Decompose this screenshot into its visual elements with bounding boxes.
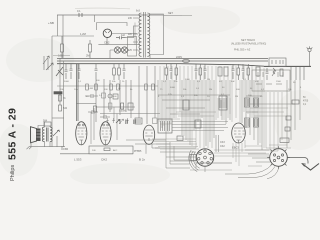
wire speaker top [38, 118, 64, 129]
transformer T1 core [144, 12, 146, 58]
svg-text:0,5M: 0,5M [58, 55, 64, 58]
socket X1 leads [190, 155, 232, 164]
horizontal connects center [126, 95, 295, 162]
fuse F1 [183, 60, 190, 63]
svg-text:0,5M: 0,5M [88, 88, 93, 90]
svg-text:0,1: 0,1 [77, 9, 81, 13]
svg-text:5M: 5M [235, 96, 238, 98]
note text block [231, 39, 266, 52]
svg-text:PHIL 555 + AZ: PHIL 555 + AZ [234, 49, 251, 52]
socket X1 labels [220, 141, 225, 148]
vertical wires mid left [60, 58, 155, 147]
wire mains lead [164, 15, 193, 17]
svg-text:L 553: L 553 [74, 158, 82, 162]
hum pot arrow [53, 130, 60, 136]
wire under speaker / ground [27, 136, 66, 149]
mesh verticals dense [160, 66, 282, 166]
svg-text:5000: 5000 [64, 81, 70, 83]
wire V3 bottom leads [146, 144, 160, 154]
detector parts row [116, 119, 135, 124]
svg-text:8uF: 8uF [231, 81, 235, 83]
IF transformer above V3 [135, 118, 142, 124]
wire lamps [110, 50, 129, 58]
mid components center [183, 96, 299, 131]
svg-text:4700: 4700 [303, 101, 309, 103]
svg-text:1500: 1500 [276, 81, 282, 83]
wire vertical from top rail to AVC line [58, 15, 95, 58]
wire tube to transformer [112, 26, 137, 37]
tuning indicator tube U1 [103, 29, 111, 37]
svg-text:AFC: AFC [113, 149, 118, 152]
switch S1 [56, 67, 63, 76]
component row under bus [65, 64, 305, 80]
svg-text:5000: 5000 [170, 87, 176, 89]
tube V2 (AF3) [100, 122, 111, 145]
box above X2 [280, 138, 289, 143]
antenna post [309, 52, 311, 66]
svg-text:4uF: 4uF [121, 34, 126, 37]
svg-text:534: 534 [63, 107, 68, 110]
svg-text:1,2M: 1,2M [80, 32, 86, 36]
capacitor C2 [116, 36, 126, 39]
transformer taps [133, 18, 138, 50]
mesh horizontals dense [152, 98, 291, 170]
svg-text:CH2: CH2 [101, 158, 107, 162]
output socket X2 [267, 146, 290, 169]
svg-text:6v3: 6v3 [136, 10, 141, 13]
rectifier socket X1 [189, 149, 214, 172]
dense wiring verticals center [158, 80, 300, 150]
junction box above transformer [44, 122, 51, 126]
resistor R2 [89, 40, 92, 58]
svg-text:2M: 2M [209, 89, 212, 91]
output transformer T2 [42, 127, 52, 142]
svg-text:220V: 220V [176, 55, 182, 59]
svg-text:504: 504 [43, 120, 48, 123]
wire mains bus 1 [57, 58, 268, 60]
svg-text:CK3: CK3 [220, 141, 225, 144]
wire top rail +HT [57, 14, 163, 16]
svg-text:(ALLEEN RUSTAANSLUITING): (ALLEEN RUSTAANSLUITING) [231, 43, 266, 46]
bottom left wires near X1 [166, 138, 196, 168]
resistor R5 box [59, 95, 62, 111]
scale lamp LP2 [121, 47, 127, 53]
tube V3 (EBC3) [143, 125, 154, 144]
transformer T1 secondary [147, 13, 150, 56]
tube V4 (EL/AL4) [232, 123, 246, 143]
wire oscillator frame [97, 23, 140, 45]
aerial symbol [307, 46, 313, 51]
wire mains bus 3 [57, 64, 264, 66]
IF transformer can L3 [158, 119, 228, 133]
title sidebar: Philips 555 A-29 [7, 108, 19, 181]
wire mains bus 2 [57, 60, 268, 62]
svg-text:2M: 2M [86, 55, 89, 58]
value labels row 2 [60, 87, 302, 91]
small box near X1 [177, 136, 183, 141]
svg-text:+NB: +NB [48, 21, 54, 25]
wire pair right of X1 [205, 135, 219, 172]
capacitor C1 on top rail [79, 13, 82, 17]
svg-text:Philips: Philips [10, 165, 16, 181]
wires below X2 [225, 165, 279, 179]
svg-text:CB2: CB2 [104, 41, 110, 45]
mid components cluster [77, 94, 136, 119]
paper smudge [75, 7, 130, 10]
value labels row 3 [86, 94, 263, 98]
wire left frame vertical [51, 36, 53, 147]
svg-text:B 2x: B 2x [139, 158, 146, 162]
svg-text:CK2: CK2 [220, 145, 225, 148]
switch S2 wave band arrows [43, 56, 70, 71]
value labels row 1 [64, 79, 296, 84]
resistor R1 [61, 36, 64, 58]
svg-text:1M: 1M [207, 79, 210, 81]
barretter box [128, 37, 137, 57]
ground rail left [57, 85, 158, 87]
mains cable and plug arrow [287, 158, 319, 171]
svg-text:555 A - 29: 555 A - 29 [7, 108, 19, 160]
svg-text:NET: NET [168, 12, 173, 15]
resistor R4 [54, 92, 62, 94]
speaker LS [31, 127, 41, 143]
bottom bus and box [60, 146, 133, 154]
voltage selector box [269, 58, 286, 66]
wire detector row [91, 93, 160, 144]
svg-text:0,05M: 0,05M [119, 111, 125, 113]
svg-text:C5M: C5M [63, 148, 68, 151]
transformer T1 primary [139, 13, 142, 56]
wire chassis bus [264, 65, 311, 67]
tube V1 (AK2) [76, 122, 87, 145]
wire AVC line [52, 35, 94, 37]
gramo terminal box [252, 70, 290, 91]
wire transformer secondary frame [150, 14, 164, 58]
small resistors row left [86, 84, 155, 90]
scale lamp LP1 [114, 47, 120, 53]
svg-text:PH555: PH555 [134, 150, 142, 153]
